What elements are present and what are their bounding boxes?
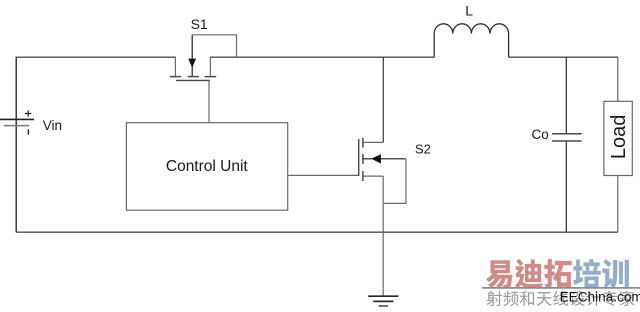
ground symbol	[368, 296, 398, 306]
svg-text:S1: S1	[191, 16, 208, 32]
battery Vin	[0, 110, 34, 135]
inductor L	[434, 24, 508, 58]
wire: bottom return rail	[16, 231, 618, 233]
wire: control unit output to S2 gate	[288, 174, 359, 176]
svg-text:Co: Co	[532, 127, 549, 142]
wire: battery positive lead, left vertical	[15, 57, 17, 233]
transistor S1 (PMOS switch)	[170, 35, 216, 81]
capacitor Co	[552, 134, 582, 141]
wire: top rail from inductor to load	[509, 56, 618, 58]
svg-text:L: L	[465, 3, 473, 19]
wire: S2 source down to ground	[382, 176, 384, 296]
wire: load bottom lead	[617, 176, 619, 233]
svg-text:S2: S2	[415, 142, 431, 157]
wire: load top lead	[617, 57, 619, 102]
wire: S2 drain up to top rail	[382, 57, 384, 142]
wire: Co top lead	[565, 57, 567, 134]
wire: S1 gate lead down to control unit	[208, 80, 210, 122]
wire: top rail from S1 drain to inductor	[210, 56, 434, 58]
svg-text:EEChina.com: EEChina.com	[560, 289, 640, 304]
wire: S1 body loop to drain rail	[192, 35, 236, 57]
svg-text:Load: Load	[608, 115, 630, 160]
wire: S2 body loop to source	[383, 159, 406, 204]
wire: top rail from battery to S1 source	[16, 56, 176, 58]
watermark tagline 射频和天线设计专家	[487, 291, 502, 306]
svg-text:Vin: Vin	[43, 118, 62, 133]
transistor S2 (sync rectifier)	[359, 138, 406, 181]
watermark: EEChina logo 易迪拓培训	[486, 260, 513, 288]
load box	[604, 101, 632, 175]
watermark underline	[482, 287, 640, 289]
svg-text:Control Unit: Control Unit	[166, 158, 249, 175]
control unit box	[126, 123, 287, 211]
wire: Co bottom lead	[565, 142, 567, 232]
